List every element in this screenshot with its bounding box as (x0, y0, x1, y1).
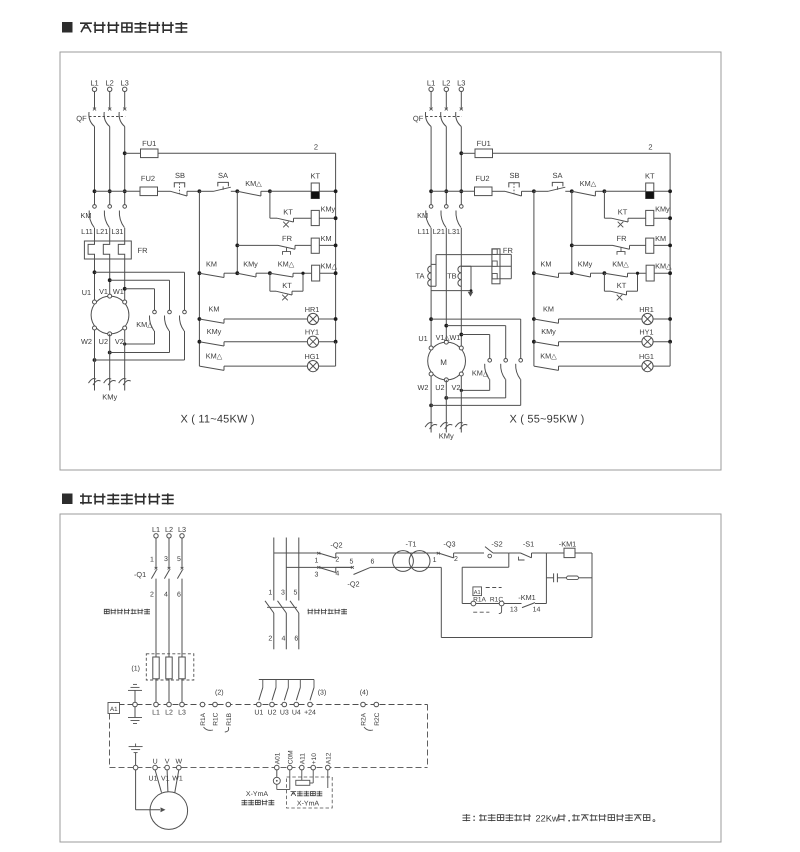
(left ckt) wire phase 3 down to motor (124, 259, 126, 300)
(left ckt) wire phase 3 to KM-delta contact (125, 288, 155, 290)
(right ckt) wire QF to KM contact (430, 127, 432, 205)
(left ckt) wire phase 2 down to motor (109, 259, 111, 294)
svg-text:4: 4 (282, 636, 286, 643)
svg-text:L21: L21 (96, 227, 108, 236)
(right ckt) wire node B down to KMy branch (603, 191, 605, 218)
jumper hook below R2 terminals (364, 727, 373, 730)
(left ckt) node FU1 tap on L3 line (123, 151, 127, 155)
section title 2: variable frequency starting principle diagram (62, 494, 73, 505)
wires fuses to inverter terminals (155, 679, 157, 703)
svg-text:-Q2: -Q2 (330, 541, 342, 550)
svg-text:(2): (2) (215, 689, 224, 697)
(right ckt) wire KMy coil to right bus (654, 217, 670, 219)
svg-text:KMy: KMy (102, 393, 117, 402)
svg-text:L2: L2 (442, 79, 450, 88)
(left ckt) wire QF to KM contact (94, 127, 96, 205)
(left ckt) node KM-delta row left (198, 271, 202, 275)
(right ckt) node FU1 tap on L3 line (459, 151, 463, 155)
svg-text:KM△: KM△ (655, 262, 672, 271)
svg-text:-Q1: -Q1 (134, 570, 146, 579)
label: with incoming line contactor (308, 609, 314, 615)
svg-text:-Q3: -Q3 (443, 540, 455, 549)
svg-text:KMy: KMy (321, 205, 336, 214)
svg-text:2: 2 (335, 557, 339, 564)
(right ckt) wire SB to node (522, 190, 534, 192)
svg-text:L31: L31 (111, 227, 123, 236)
svg-text:FR: FR (617, 234, 628, 243)
svg-text:X-YmA: X-YmA (246, 791, 269, 798)
(right ckt) wire phase 1 down to motor (430, 228, 432, 346)
(right ckt) wire QF to KM contact (460, 127, 462, 205)
svg-text:KMy: KMy (207, 327, 222, 336)
inverter A1 dashed outline (110, 704, 428, 706)
svg-text:U1: U1 (149, 776, 158, 783)
svg-text:-T1: -T1 (406, 540, 417, 549)
svg-text:U1: U1 (82, 288, 91, 297)
svg-text:U2: U2 (435, 383, 444, 392)
svg-text:L2: L2 (106, 79, 114, 88)
(left ckt) wire lamp HY1 to right bus (319, 341, 336, 343)
dashed device boundary marks (486, 587, 502, 589)
svg-text:U3: U3 (280, 710, 289, 717)
svg-text:KM△: KM△ (278, 260, 295, 269)
svg-text:U4: U4 (292, 710, 301, 717)
motor (VFD driven) (150, 792, 188, 830)
svg-text:X ( 55~95KW ): X ( 55~95KW ) (509, 414, 584, 426)
svg-text:KMy: KMy (541, 327, 556, 336)
(right ckt) wire KM-delta coil to right bus (654, 272, 670, 274)
svg-text:(1): (1) (131, 665, 140, 673)
svg-text:A01: A01 (274, 752, 281, 764)
(left ckt) wire phase 1 to KM-delta contact (95, 271, 185, 273)
svg-text:HY1: HY1 (305, 328, 319, 337)
svg-text:KMy: KMy (439, 432, 454, 441)
(right ckt) wire phase 3 down to motor (460, 228, 462, 346)
wire -Q3 to -S2 (454, 552, 484, 554)
(right ckt) node after SB (532, 189, 536, 193)
(right ckt) wire W2 line to KM-delta contact 3 (429, 404, 433, 408)
(left ckt) wire FU2 to SB (158, 190, 171, 192)
svg-text:-S1: -S1 (523, 540, 534, 549)
svg-text:R2C: R2C (374, 712, 381, 725)
svg-text:1: 1 (268, 590, 272, 597)
(right ckt) node A (after SA) (570, 189, 574, 193)
(left ckt) node on KM branch (235, 244, 239, 248)
svg-text:SB: SB (175, 171, 185, 180)
(left ckt) wire contact to lamp HY1 (224, 341, 307, 343)
RC snubber branch (545, 553, 547, 604)
(right ckt) wire node A down to KM branch (571, 191, 573, 273)
return wire bottom (440, 567, 442, 637)
svg-text:5: 5 (350, 559, 354, 566)
(left ckt) wire SB to node (187, 190, 199, 192)
(right ckt) node phase 1 above motor (429, 317, 433, 321)
svg-text:HG1: HG1 (639, 352, 654, 361)
(left ckt) wire L3 down to QF (124, 92, 126, 109)
svg-text:5: 5 (294, 590, 298, 597)
(right ckt) wire phase 2 to KM-delta contact (446, 325, 505, 327)
(right ckt) node on KM branch (570, 244, 574, 248)
svg-text:KM: KM (655, 234, 666, 243)
(left ckt) node phase 3 above motor (123, 287, 127, 291)
(left ckt) right bus vertical (net 2) (335, 153, 337, 341)
(right ckt) wire lamp HY1 to right bus (653, 341, 670, 343)
(left ckt) wire lamp HR1 to right bus (319, 318, 336, 320)
switch -Q2 pole 5-6 (351, 566, 354, 569)
(right ckt) node phase 2 above motor (444, 324, 448, 328)
(left ckt) motor M (3-phase) (91, 296, 129, 334)
(right ckt) right bus lower segment (669, 342, 671, 366)
note text (463, 814, 471, 821)
(left ckt) wire U2 line to KM-delta contact 2 (108, 351, 112, 355)
svg-text:2: 2 (454, 556, 458, 563)
svg-text:3: 3 (281, 590, 285, 597)
(left ckt) wires KM-delta contacts down (184, 331, 186, 360)
panel border box 1 (60, 52, 721, 470)
setpoint potentiometer (287, 777, 333, 808)
(right ckt) wire phase 3 to KM-delta contact (461, 334, 489, 336)
svg-text:U1: U1 (254, 710, 263, 717)
(left ckt) wire L2 down to QF (109, 92, 111, 109)
svg-text:HR1: HR1 (305, 305, 320, 314)
(left ckt) wire V2 to KM-delta contact 1 (125, 343, 155, 345)
(left ckt) wire node A down to KM branch (236, 191, 238, 273)
(right ckt) node phase 3 above motor (459, 333, 463, 337)
svg-text:FU1: FU1 (142, 139, 156, 148)
svg-text:2: 2 (268, 636, 272, 643)
svg-text:FR: FR (138, 246, 149, 255)
(right ckt) wire contact to lamp HY1 (559, 341, 642, 343)
svg-text:X ( 11~45KW ): X ( 11~45KW ) (180, 414, 254, 426)
svg-text:HG1: HG1 (304, 352, 319, 361)
svg-text:FU2: FU2 (141, 174, 155, 183)
svg-text:R2A: R2A (361, 712, 368, 725)
svg-text:1: 1 (315, 558, 319, 565)
svg-text:-KM1: -KM1 (559, 540, 576, 549)
(left ckt) wire W2 line to KM-delta contact 3 (93, 358, 97, 362)
svg-text:(4): (4) (360, 689, 369, 697)
svg-text:FU1: FU1 (477, 139, 491, 148)
svg-text:KT: KT (282, 281, 292, 290)
svg-text:V1: V1 (161, 776, 170, 783)
PE ground below input row (134, 707, 136, 718)
svg-text:2: 2 (648, 143, 652, 152)
svg-text:W2: W2 (418, 383, 429, 392)
svg-text:KM△: KM△ (206, 352, 223, 361)
svg-text:R1B: R1B (226, 712, 233, 725)
label: without incoming line contactor (104, 609, 109, 613)
svg-text:KT: KT (645, 172, 655, 181)
(right ckt) wire L2 down to QF (445, 92, 447, 109)
(right ckt) node B (603, 189, 607, 193)
svg-text:6: 6 (371, 559, 375, 566)
svg-text:-KM1: -KM1 (518, 593, 535, 602)
svg-text:L3: L3 (121, 79, 129, 88)
inverter terminal box A1 (relay) (473, 587, 482, 596)
svg-text:A11: A11 (299, 753, 306, 765)
svg-text:L11: L11 (81, 227, 93, 236)
svg-text:KT: KT (617, 281, 627, 290)
svg-text:V: V (165, 759, 170, 766)
svg-text:R1A: R1A (200, 712, 207, 725)
(left ckt) wire KM coil to right bus (319, 244, 335, 246)
(right ckt) wire lamp HG1 to right bus (653, 365, 670, 367)
(right ckt) wire KT coil to right bus (654, 190, 670, 192)
wire -KM1 coil to return (591, 553, 593, 638)
inverter input terminals L1 L2 L3 (154, 702, 159, 707)
svg-text:KM: KM (543, 305, 554, 314)
(left ckt) left bus down from SB node (198, 191, 200, 366)
svg-text:A12: A12 (325, 752, 332, 764)
(right ckt) wire phase 1 to KM-delta contact (431, 318, 521, 320)
svg-text:W: W (175, 759, 182, 766)
(right ckt) motor M (3-phase) (428, 342, 466, 380)
svg-text:KMy: KMy (655, 205, 670, 214)
svg-text:M: M (440, 358, 447, 367)
(right ckt) wire phase 2 down to motor (445, 228, 447, 340)
svg-text:1: 1 (433, 557, 437, 564)
svg-text:KM△: KM△ (540, 352, 557, 361)
panel border box 2 (60, 514, 721, 842)
(left ckt) node A (after SA) (235, 189, 239, 193)
(left ckt) node lamp row HR1 (198, 317, 202, 321)
svg-text:W1: W1 (113, 287, 124, 296)
svg-text:U: U (153, 759, 158, 766)
svg-text:1: 1 (150, 557, 154, 564)
svg-text:KM: KM (541, 260, 552, 269)
wire -Q2 to -T1 (336, 552, 438, 554)
svg-text:L2: L2 (165, 710, 173, 717)
(left ckt) star-point contactor KMy (94, 330, 96, 390)
(right ckt) star-point contactor KMy (430, 376, 432, 432)
svg-text:L1: L1 (427, 79, 435, 88)
(right ckt) ground arrow (CT secondary earth) (468, 292, 474, 297)
(right ckt) wire QF to KM contact (445, 127, 447, 205)
(left ckt) wire KMy coil to right bus (319, 217, 335, 219)
svg-text:TA: TA (415, 272, 424, 281)
svg-text:V2: V2 (115, 337, 124, 346)
svg-text:KMy: KMy (578, 260, 593, 269)
(left ckt) node phase 2 above motor (108, 278, 112, 282)
section title 1: star-delta starting principle diagram (62, 22, 73, 33)
svg-text:V2: V2 (451, 383, 460, 392)
svg-text:A1: A1 (110, 706, 118, 713)
svg-text:6: 6 (177, 592, 181, 599)
wires U V W to motor (155, 770, 161, 793)
(right ckt) node lamp row HR1 (532, 317, 536, 321)
(right ckt) junction dots on phase lines at control tap (429, 189, 433, 193)
svg-text:-S2: -S2 (491, 540, 502, 549)
(right ckt) wire contact to lamp HR1 (559, 318, 642, 320)
svg-text:L31: L31 (448, 227, 460, 236)
(left ckt) wire phase 2 to KM-delta contact (110, 279, 170, 281)
PE ground above input row (128, 689, 142, 691)
svg-text:KM△: KM△ (580, 179, 597, 188)
svg-text:KT: KT (618, 208, 628, 217)
svg-text:6: 6 (294, 636, 298, 643)
(right ckt) wire TA secondary to FR (436, 254, 492, 256)
(left ckt) node B (268, 189, 272, 193)
(left ckt) junction dots on phase lines at control tap (93, 189, 97, 193)
(right ckt) wire TB secondary to FR (461, 265, 492, 267)
svg-text:3: 3 (315, 572, 319, 579)
svg-text:KMy: KMy (243, 260, 258, 269)
svg-text:U2: U2 (99, 337, 108, 346)
svg-text:HY1: HY1 (639, 328, 653, 337)
svg-text:R1C: R1C (213, 712, 220, 725)
svg-text:QF: QF (413, 114, 424, 123)
svg-text:KM△: KM△ (612, 260, 629, 269)
(right ckt) wire L3 down to QF (460, 92, 462, 109)
(left ckt) right bus lower segment (335, 342, 337, 366)
(left ckt) wire KT coil to right bus (319, 190, 335, 192)
(left ckt) wire node B down to KMy branch (269, 191, 271, 218)
(right ckt) node lamp row HY1 (532, 340, 536, 344)
(right ckt) wires KM-delta contacts down (520, 379, 522, 405)
svg-text:L1: L1 (90, 79, 98, 88)
svg-text:V1: V1 (99, 287, 108, 296)
(right ckt) wire FU2 to SB (492, 190, 505, 192)
(left ckt) node after SB (198, 189, 202, 193)
jumper hooks below R1 terminals (204, 727, 214, 730)
svg-text:A1: A1 (474, 590, 481, 596)
(right ckt) wire L1 down to QF (430, 92, 432, 109)
switch -Q2 pole 3-4 (317, 566, 320, 569)
(right ckt) wire KM coil to right bus (654, 244, 670, 246)
svg-text:13: 13 (510, 607, 518, 614)
svg-text:L21: L21 (433, 227, 445, 236)
svg-text:KM: KM (209, 305, 220, 314)
ground to motor frame (129, 746, 143, 748)
svg-text:SA: SA (552, 171, 562, 180)
line contactor KM poles (267, 606, 297, 608)
svg-text:KT: KT (310, 172, 320, 181)
svg-text:TB: TB (447, 272, 457, 281)
svg-text:-Q2: -Q2 (347, 580, 359, 589)
svg-text:W2: W2 (81, 337, 92, 346)
svg-text:14: 14 (533, 607, 541, 614)
branch -S2 bypass to inverter relay R1A (508, 553, 510, 567)
frequency meter X-YmA (276, 770, 278, 777)
svg-text:U1: U1 (418, 334, 427, 343)
(right ckt) wire lamp HR1 to right bus (653, 318, 670, 320)
(left ckt) node lamp row HY1 (198, 340, 202, 344)
(left ckt) wire QF to KM contact (109, 127, 111, 205)
inverter name plate A1 (108, 703, 120, 714)
(left ckt) wire contact to lamp HR1 (224, 318, 307, 320)
svg-text:(3): (3) (318, 689, 327, 697)
svg-text:C0M: C0M (287, 750, 294, 764)
(left ckt) wire KM-delta coil to right bus (320, 272, 336, 274)
svg-text:5: 5 (177, 556, 181, 563)
svg-text:L3: L3 (457, 79, 465, 88)
svg-text:FU2: FU2 (475, 174, 489, 183)
(left ckt) wire QF to KM contact (124, 127, 126, 205)
svg-text:KM△: KM△ (245, 179, 262, 188)
(right ckt) wire contact to lamp HG1 (559, 365, 642, 367)
svg-text:L2: L2 (165, 525, 173, 534)
(left ckt) wire L1 down to QF (94, 92, 96, 109)
(left ckt) wire phase 1 down to motor (94, 259, 96, 300)
(left ckt) wire node B to timer KT coil (270, 190, 311, 192)
(right ckt) wire U2 line to KM-delta contact 2 (444, 396, 448, 400)
svg-text:X-YmA: X-YmA (297, 801, 320, 808)
(left ckt) wire lamp HG1 to right bus (319, 365, 336, 367)
svg-text:4: 4 (335, 571, 339, 578)
svg-text:4: 4 (164, 592, 168, 599)
svg-text:KM△: KM△ (321, 262, 338, 271)
svg-text:L11: L11 (418, 227, 430, 236)
svg-text:2: 2 (314, 143, 318, 152)
wires to optional line contactor (273, 538, 275, 601)
svg-text:FR: FR (282, 234, 293, 243)
svg-text:HR1: HR1 (639, 305, 654, 314)
(right ckt) wire node B to timer KT coil (604, 190, 645, 192)
(right ckt) FR right-side jumper (500, 254, 511, 278)
(right ckt) node KM-delta row left (532, 271, 536, 275)
svg-text:L1: L1 (152, 710, 160, 717)
svg-text:22Kw: 22Kw (536, 814, 559, 824)
svg-text:U2: U2 (268, 710, 277, 717)
(right ckt) CT common return wire (431, 290, 470, 292)
svg-text:2: 2 (150, 592, 154, 599)
(left ckt) node phase 1 above motor (93, 270, 97, 274)
svg-text:SB: SB (509, 171, 519, 180)
svg-text:FR: FR (503, 246, 514, 255)
svg-text:+10: +10 (311, 753, 318, 765)
(right ckt) wire FU1 to right bus, net 2 (493, 152, 671, 154)
(left ckt) wire contact to lamp HG1 (224, 365, 307, 367)
svg-text:L1: L1 (152, 525, 160, 534)
(right ckt) left bus down from SB node (533, 191, 535, 366)
svg-text:L3: L3 (178, 710, 186, 717)
svg-text:L3: L3 (178, 525, 186, 534)
svg-text:QF: QF (76, 114, 87, 123)
svg-text:KM: KM (321, 234, 332, 243)
tap wire 2 to control transformer (286, 566, 352, 568)
(right ckt) wire V2 to KM-delta contact 1 (461, 389, 489, 391)
svg-text:KT: KT (283, 208, 293, 217)
svg-text:△W1: △W1 (444, 333, 461, 342)
wire to transformer secondary side (370, 566, 441, 568)
svg-text:SA: SA (218, 171, 228, 180)
svg-text:3: 3 (164, 556, 168, 563)
svg-text:KM: KM (206, 260, 217, 269)
(left ckt) wire FU1 to right bus, net 2 (158, 152, 336, 154)
svg-text:+24: +24 (304, 710, 316, 717)
(right ckt) right bus vertical (net 2) (669, 153, 671, 341)
tap wire 1 to control transformer (274, 552, 319, 554)
